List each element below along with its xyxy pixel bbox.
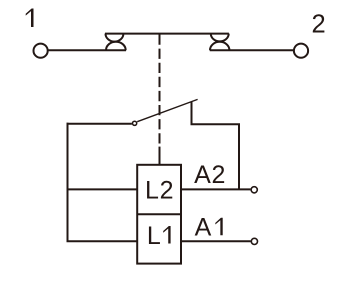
mechanical link (dashed): [159, 35, 161, 144]
svg-text:A: A: [195, 214, 212, 242]
terminal A1: [251, 238, 257, 244]
coil label L1: [147, 222, 171, 250]
svg-text:2: 2: [312, 11, 326, 39]
wire rail to coil L2: [67, 188, 138, 190]
switch pivot node: [133, 121, 137, 125]
wire coil L2 to terminal A2: [181, 188, 250, 190]
wire coil L1 to terminal A1: [181, 240, 251, 242]
wire right contact to terminal2: [210, 49, 294, 51]
contact S1 lower arc: [106, 42, 126, 51]
wire terminal1 to left contact: [48, 49, 126, 51]
contact S2 upper arc: [211, 34, 229, 42]
terminal label A1: [195, 214, 223, 242]
terminal 1: [34, 44, 48, 58]
wire rail to coil L1: [67, 240, 138, 242]
terminal label 1: [26, 9, 34, 28]
coil box: [137, 165, 181, 264]
mechanical link lower segment: [159, 147, 161, 165]
wire top bar: [105, 33, 229, 35]
contact S1 upper arc: [106, 34, 124, 42]
terminal 2: [294, 44, 308, 58]
svg-text:L: L: [147, 222, 161, 250]
coil box divider: [137, 213, 181, 215]
switch blade: [137, 99, 197, 121]
terminal A2: [251, 187, 257, 193]
svg-text:A2: A2: [194, 161, 226, 189]
contact S2 lower arc: [210, 42, 229, 50]
wire left rail: [67, 123, 69, 242]
wire blade tip to A2 node: [192, 102, 240, 190]
svg-text:L2: L2: [145, 176, 174, 204]
wire rail to switch pivot: [67, 123, 132, 125]
